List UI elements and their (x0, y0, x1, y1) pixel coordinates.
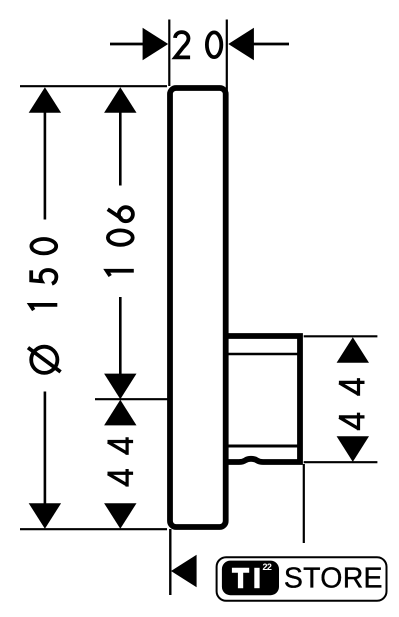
dim line lower segment (119, 297, 122, 375)
box inner line top (227, 353, 298, 355)
arrow up (104, 400, 136, 426)
leader line below box (303, 464, 305, 543)
text 4 lower (339, 413, 365, 431)
logo outer box (217, 557, 387, 601)
letter I (254, 568, 259, 588)
text 0 (207, 32, 221, 57)
top face extension line (20, 85, 167, 87)
wall arrow (points left at wall line) (171, 555, 197, 587)
top dim extension line left (168, 20, 170, 87)
text 4 upper (339, 378, 365, 396)
dim line upper segment (119, 112, 122, 186)
letter T (232, 568, 249, 588)
valve centre line (95, 398, 168, 400)
wall line below plate (169, 529, 171, 595)
diameter symbol (28, 347, 61, 373)
20 dim arrow left (143, 28, 169, 60)
box inner line bottom (227, 445, 301, 448)
arrow up (29, 87, 61, 113)
text 0 of 150 (31, 239, 56, 253)
arrow down (104, 374, 136, 400)
text 4 upper (108, 437, 134, 455)
20 dim tail left (110, 43, 144, 46)
arrow up (104, 87, 136, 113)
plate outline (170, 88, 226, 527)
arrow down (337, 436, 369, 462)
text 0 of 106 (108, 230, 133, 244)
top dim extension line right (226, 20, 228, 151)
arrow down (104, 503, 136, 529)
text 1 of 150 (30, 305, 57, 310)
svg-text:22: 22 (263, 562, 272, 572)
right 44 extension line top (304, 335, 378, 337)
20 dim tail right (253, 43, 289, 46)
text 6 of 106 (108, 207, 133, 221)
dim line lower segment (44, 392, 47, 505)
bottom face extension line (20, 528, 167, 530)
text 5 of 150 (31, 270, 56, 284)
logo TI black box (222, 561, 279, 596)
right 44 extension line bottom (304, 461, 378, 463)
text 1 of 106 (107, 271, 134, 276)
dim line upper segment (44, 112, 47, 220)
20 dim arrow right (228, 28, 254, 60)
text 2 (175, 32, 190, 57)
text 4 lower (108, 469, 134, 487)
arrow up (337, 337, 369, 363)
svg-text:STORE: STORE (284, 562, 383, 594)
arrow down (29, 503, 61, 529)
protrusion box (valve body) (225, 336, 300, 462)
